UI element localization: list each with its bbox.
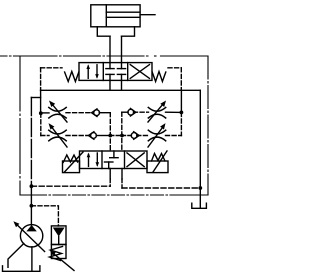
wire pump suction riser (30, 186, 32, 225)
check valve CV1 (92, 109, 100, 117)
valve V1 left position arrows (86, 64, 98, 79)
tank T1 (192, 203, 207, 208)
throttle valve FT3 (148, 101, 166, 123)
valve V2 crossed position X (127, 153, 144, 167)
wire right feed to tank column (199, 90, 201, 207)
wire valve V1 bottom stubs (109, 80, 111, 90)
pump P1 (variable displacement) (13, 221, 44, 251)
valve V2 center T-blocks (105, 151, 119, 169)
node N6 (198, 186, 202, 190)
throttle valve FT4 (148, 123, 166, 147)
wire FT3 to node N4 (166, 111, 182, 113)
pilot line to relief (dashed) (31, 206, 58, 226)
solenoid SOL-a with spring (63, 152, 84, 173)
wire CV1 to column A (99, 112, 110, 114)
wire main header line (41, 89, 201, 91)
dashed subplate box around valve V1 (41, 68, 182, 91)
cylinder C1 (91, 5, 155, 27)
wire cylinder port A line (109, 36, 111, 62)
wire pump pressure line (dashed) (31, 185, 110, 187)
enclosure boundary (dash-dot outer box) (0, 56, 208, 195)
valve V1 closed center T-blocks (106, 63, 126, 81)
wire V2 T-port stub (121, 169, 123, 180)
relief valve RV1 (51, 226, 66, 259)
valve V1 body (4/3 directional, spring centered) (79, 63, 152, 81)
wire tank return line (dashed) (122, 187, 200, 189)
wire V2 P-port stub (109, 169, 111, 180)
wire N2 to N3 (dashed) (110, 135, 122, 137)
wire cylinder port B line (121, 36, 123, 62)
valve V2 body (4/3 solenoid operated) (80, 151, 148, 169)
node N3 (120, 134, 124, 138)
check valve CV4 (131, 132, 139, 140)
wire CV3 to FT3 (dashed) (134, 111, 149, 113)
valve V2 left position arrows (87, 153, 99, 167)
wire N3 to CV4 (dashed) (122, 135, 132, 137)
throttle valve FT1 (variable restrictor) (49, 101, 67, 123)
wire right branch down (dashed) (180, 112, 182, 135)
check valve CV2 (89, 132, 97, 140)
check valve CV3 (128, 108, 136, 116)
solenoid SOL-b with spring (147, 151, 168, 173)
node N7 (30, 204, 34, 208)
wire left branch down (dashed) (40, 113, 42, 135)
wire to FT2 (dashed) (41, 135, 49, 137)
wire CV4 to FT4 (dashed) (137, 135, 149, 137)
wire FT1 inlet (41, 112, 49, 114)
reservoir T2 (3, 266, 40, 272)
wire B corner to CV3 (122, 111, 128, 113)
wire FT2 to CV2 (dashed) (66, 135, 89, 137)
wire CV2 to node N2 (96, 135, 110, 137)
throttle valve FT2 (49, 123, 68, 147)
node N5 (30, 184, 34, 188)
valve V1 right spring (152, 72, 166, 82)
node N4 (180, 111, 184, 115)
wire FT4 to right branch (dashed) (166, 135, 182, 137)
wire left feed down (40, 90, 42, 113)
cylinder mounting bracket (97, 27, 134, 36)
wire pump case drain (8, 244, 24, 268)
node N1 (39, 111, 43, 115)
valve V1 left spring (65, 72, 79, 82)
wire pump riser joins (31, 97, 40, 99)
wire FT1 to CV1 (dashed) (66, 112, 92, 114)
wire right assembly feed (180, 90, 182, 112)
valve V1 crossed position X (130, 65, 149, 79)
relief valve RV1 spring (50, 247, 63, 261)
wire pump outlet down (31, 247, 33, 271)
wire right column B top (dashed) (121, 112, 123, 151)
relief valve RV1 adjustment arrow (50, 250, 74, 270)
wire column A down (dashed) (109, 113, 111, 151)
node N2 (108, 134, 112, 138)
